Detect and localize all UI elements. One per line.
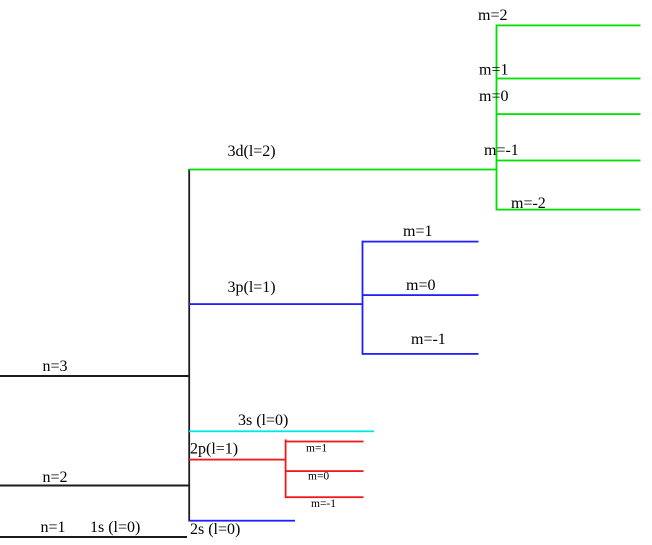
level n=2 <box>0 485 189 487</box>
svg-text:2p(l=1): 2p(l=1) <box>190 441 238 458</box>
level 3p m=-1 <box>362 353 479 355</box>
level 3d <box>189 169 497 171</box>
level 3d m=-1 <box>496 160 641 162</box>
level 2p m=0 <box>285 470 364 472</box>
level 3p m=0 <box>362 294 479 296</box>
level 2p m=-1 <box>285 496 364 498</box>
level 3d m=0 <box>496 113 641 115</box>
svg-text:m=1: m=1 <box>403 223 432 240</box>
svg-text:3d(l=2): 3d(l=2) <box>228 143 276 160</box>
svg-text:1s (l=0): 1s (l=0) <box>90 519 140 536</box>
level 2p m=1 <box>285 441 364 443</box>
level n=3 <box>0 375 189 377</box>
svg-text:3s (l=0): 3s (l=0) <box>238 412 288 429</box>
level 3p <box>189 303 363 305</box>
svg-text:m=2: m=2 <box>478 7 507 24</box>
level 3d m=1 <box>496 78 641 80</box>
svg-text:2s (l=0): 2s (l=0) <box>190 521 240 538</box>
wire 3d vertical <box>496 25 498 211</box>
level 3p m=1 <box>362 241 479 243</box>
svg-text:3p(l=1): 3p(l=1) <box>228 279 276 296</box>
svg-text:m=1: m=1 <box>306 443 327 455</box>
svg-text:m=-2: m=-2 <box>511 195 546 212</box>
level 2s <box>189 520 295 522</box>
svg-text:m=-1: m=-1 <box>311 498 336 510</box>
level n=1 <box>0 536 187 538</box>
svg-text:n=1: n=1 <box>41 519 66 536</box>
level 3d m=-2 <box>496 209 641 211</box>
level 3d m=2 <box>496 25 641 27</box>
svg-text:m=1: m=1 <box>479 62 508 79</box>
svg-text:n=3: n=3 <box>43 358 68 375</box>
svg-text:n=2: n=2 <box>43 469 68 486</box>
wire trunk vertical <box>188 169 190 522</box>
wire 3p vertical <box>362 241 364 355</box>
level 2p <box>189 459 286 461</box>
svg-text:m=-1: m=-1 <box>411 331 446 348</box>
svg-text:m=0: m=0 <box>479 88 508 105</box>
level 3s <box>189 430 374 432</box>
svg-text:m=-1: m=-1 <box>484 142 519 159</box>
svg-text:m=0: m=0 <box>406 277 435 294</box>
svg-text:m=0: m=0 <box>308 471 329 483</box>
wire 2p vertical <box>285 439 287 498</box>
